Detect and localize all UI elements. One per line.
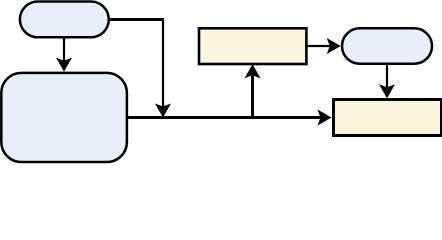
wire C to D (horizontal arrow) [306, 38, 340, 54]
node D (right pill) [342, 28, 432, 63]
node C (top-middle yellow rectangle) [199, 28, 306, 64]
node A (top-left pill) [20, 2, 109, 38]
wire bus junction to C (vertical up arrow) [245, 64, 261, 117]
wire A to B (vertical arrow) [56, 37, 72, 71]
wire A to bus junction (elbow with down arrow) [109, 18, 171, 118]
wire B to E (horizontal bus with right arrow) [127, 110, 332, 126]
wire D to E (vertical down arrow) [379, 64, 395, 99]
node B (large rounded rectangle) [1, 73, 127, 162]
node E (bottom-right yellow rectangle) [334, 100, 442, 136]
